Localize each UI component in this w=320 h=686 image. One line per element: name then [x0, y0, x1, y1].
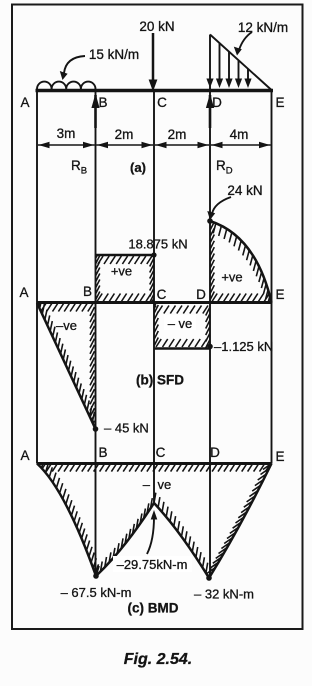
- vertical line C: [153, 92, 155, 503]
- svg-text:18.875 kN: 18.875 kN: [128, 237, 187, 252]
- triangular load arrow 5: [247, 69, 249, 80]
- BMD curve A to B vertex: [37, 464, 96, 577]
- svg-text:E: E: [275, 449, 284, 464]
- svg-text:+ve: +ve: [111, 264, 132, 279]
- hatch band: SFD rectangle C-D (-ve): [151, 299, 213, 355]
- hatch band: SFD rectangle B-C (+ve): [92, 250, 157, 309]
- svg-text:B: B: [98, 445, 107, 460]
- BMD curve D vertex to E: [209, 464, 272, 579]
- dot at BMD D vertex: [206, 575, 212, 581]
- svg-text:12 kN/m: 12 kN/m: [238, 20, 288, 35]
- svg-text:3m: 3m: [57, 126, 76, 141]
- dot at D top 24 kN: [207, 218, 213, 224]
- svg-text:E: E: [275, 287, 284, 302]
- svg-text:E: E: [275, 95, 284, 110]
- svg-text:C: C: [157, 287, 167, 302]
- hatch band: BMD right lobe C-D-E: [154, 464, 272, 585]
- vertical line A: [36, 92, 38, 464]
- svg-text:B: B: [98, 95, 107, 110]
- svg-text:15 kN/m: 15 kN/m: [89, 47, 139, 62]
- triangular load D-E: vertical side: [209, 35, 211, 90]
- svg-text:– 67.5 kN-m: – 67.5 kN-m: [61, 585, 132, 600]
- svg-text:A: A: [20, 448, 29, 463]
- svg-text:D: D: [210, 445, 220, 460]
- SFD curve D-E: [210, 221, 272, 303]
- UDL coil arcs A-B (15 kN/m): [37, 82, 96, 89]
- svg-text:C: C: [157, 95, 167, 110]
- pointer arrow to UDL: [64, 56, 85, 73]
- dimension line 2m (C-D): [155, 144, 209, 146]
- SFD -ve label (C-D): [164, 315, 196, 330]
- svg-text:2m: 2m: [115, 127, 134, 142]
- pointer arrow to C cusp: [147, 517, 154, 554]
- reaction arrow R_B: [94, 95, 97, 128]
- svg-text:(b) SFD: (b) SFD: [136, 373, 184, 388]
- dimension line 3m: [38, 144, 95, 146]
- svg-text:20 kN: 20 kN: [139, 19, 174, 34]
- svg-text:– 45 kN: – 45 kN: [104, 421, 149, 436]
- svg-text:+ve: +ve: [221, 270, 242, 285]
- svg-text:A: A: [20, 95, 29, 110]
- svg-text:4m: 4m: [230, 127, 249, 142]
- vertical line B: [95, 92, 97, 576]
- svg-text:– 32 kN-m: – 32 kN-m: [194, 587, 254, 602]
- svg-text:–ve: –ve: [56, 318, 77, 333]
- dot at BMD B vertex: [93, 573, 99, 579]
- svg-text:D: D: [196, 287, 206, 302]
- BMD curve C cusp to D vertex: [154, 503, 209, 578]
- hatch band: BMD baseline row: [34, 465, 270, 472]
- svg-text:Fig. 2.54.: Fig. 2.54.: [124, 651, 192, 668]
- BMD label -29.75 kN-m: [113, 556, 192, 572]
- BMD curve B vertex to C cusp: [96, 503, 154, 576]
- svg-text:–: –: [143, 477, 151, 492]
- dimension line 2m (B-C): [97, 144, 154, 146]
- pointer arrow to triangular load: [239, 32, 252, 50]
- point load 20 kN arrow: [152, 33, 155, 82]
- svg-text:(a): (a): [130, 160, 146, 175]
- triangular load arrow 3: [228, 52, 230, 80]
- svg-text:24 kN: 24 kN: [227, 183, 262, 198]
- triangular load arrow 4: [238, 60, 240, 80]
- SFD rect B-C top edge: [96, 254, 155, 257]
- triangular load arrow 1: [206, 79, 213, 89]
- svg-text:– ve: – ve: [168, 316, 193, 331]
- SFD baseline: [37, 301, 272, 304]
- dot at C top of +ve rect: [151, 252, 156, 257]
- svg-text:A: A: [19, 285, 28, 300]
- dot at D bottom -1.125: [207, 344, 213, 350]
- triangular load arrow 2: [219, 43, 221, 80]
- reaction arrow R_D: [209, 95, 212, 128]
- beam A-E: [36, 89, 274, 92]
- hatch band: SFD curve region D-E (+ve): [207, 216, 275, 313]
- dimension line 4m (D-E): [211, 144, 271, 146]
- hatch band: BMD left lobe A-B-C: [37, 454, 156, 577]
- svg-text:2m: 2m: [168, 127, 187, 142]
- svg-text:C: C: [156, 445, 166, 460]
- BMD baseline: [37, 462, 272, 465]
- svg-text:–1.125 kN: –1.125 kN: [214, 339, 273, 354]
- svg-text:ve: ve: [158, 477, 172, 492]
- pointer arrow to 24 kN point: [212, 197, 231, 214]
- svg-text:(c) BMD: (c) BMD: [128, 601, 179, 616]
- vertical line D: [209, 92, 211, 578]
- triangular load hypotenuse: [210, 35, 272, 91]
- hatch band: SFD triangle A-B (-ve): [35, 293, 98, 436]
- dot at B bottom -45: [93, 426, 99, 432]
- vertical line E: [271, 92, 273, 464]
- svg-text:–29.75kN-m: –29.75kN-m: [117, 557, 188, 572]
- svg-text:B: B: [83, 284, 92, 299]
- SFD rect C-D bottom edge: [154, 347, 210, 350]
- SFD triangle hypotenuse A to -45: [37, 303, 96, 429]
